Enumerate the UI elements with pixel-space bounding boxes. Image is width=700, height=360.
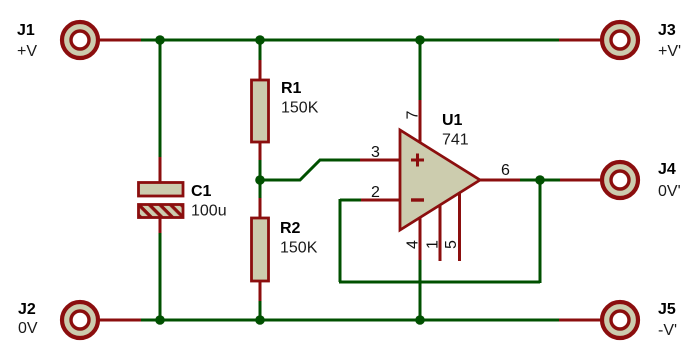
wire pin7 lead red xyxy=(419,100,422,144)
junction dot (160,40) xyxy=(155,35,165,45)
svg-text:+V: +V xyxy=(17,43,37,60)
op-amp U1 body xyxy=(400,130,480,230)
wire J2 pin stub xyxy=(99,319,141,322)
wire output green xyxy=(520,179,560,182)
wire C1 top lead red xyxy=(159,157,162,182)
junction dot (260,40) xyxy=(255,35,265,45)
wire node A to pin3 green xyxy=(261,160,361,180)
svg-text:4: 4 xyxy=(405,240,422,249)
svg-text:150K: 150K xyxy=(280,240,318,257)
svg-text:1: 1 xyxy=(425,240,442,249)
svg-text:5: 5 xyxy=(443,240,460,249)
wire C1 branch lower green xyxy=(159,233,162,320)
svg-text:J3: J3 xyxy=(658,22,676,39)
svg-text:0V: 0V xyxy=(18,320,38,337)
wire R1 bottom lead red xyxy=(259,142,262,161)
wire R2 branch bottom green xyxy=(259,301,262,320)
op-amp minus symbol xyxy=(411,198,424,201)
svg-text:0V': 0V' xyxy=(658,183,681,200)
svg-text:2: 2 xyxy=(371,184,380,201)
wire R2 bottom lead red xyxy=(259,281,262,302)
svg-text:J2: J2 xyxy=(18,301,36,318)
wire pin1 lead red xyxy=(439,204,442,261)
connector J2 xyxy=(62,302,98,338)
wire pin7 branch green xyxy=(419,40,422,101)
svg-text:J1: J1 xyxy=(17,22,35,39)
junction dot node A (260,180) xyxy=(255,175,265,185)
wire J1 pin stub xyxy=(99,39,141,42)
wire pin6 lead red xyxy=(479,179,521,182)
resistor R1 xyxy=(252,80,269,142)
svg-text:J4: J4 xyxy=(658,161,676,178)
svg-text:J5: J5 xyxy=(658,301,676,318)
junction dot output (540,180) xyxy=(535,175,545,185)
svg-text:R1: R1 xyxy=(281,80,302,97)
connector J3 xyxy=(602,22,638,58)
svg-text:-V': -V' xyxy=(658,322,677,339)
svg-text:U1: U1 xyxy=(442,112,463,129)
wire R1 top lead red xyxy=(259,60,262,80)
svg-text:741: 741 xyxy=(442,132,469,149)
wire pin2 lead red xyxy=(360,199,400,202)
wire C1 branch upper green xyxy=(159,40,162,158)
junction dot (420,320) xyxy=(415,315,425,325)
junction dot (160,320) xyxy=(155,315,165,325)
svg-text:+V': +V' xyxy=(658,43,681,60)
capacitor C1 top plate xyxy=(139,183,184,197)
wire J4 pin stub xyxy=(559,179,600,182)
connector J4 xyxy=(602,162,638,198)
svg-text:3: 3 xyxy=(371,144,380,161)
connector J5 xyxy=(602,302,638,338)
connector J1 xyxy=(62,22,98,58)
wire pin4 lead red xyxy=(419,216,422,261)
wire node A green xyxy=(259,160,262,199)
capacitor C1 bottom plate (hatched) xyxy=(139,205,184,218)
wire feedback left vertical green xyxy=(339,199,342,282)
wire pin4 to rail green xyxy=(419,260,422,320)
wire bottom rail green xyxy=(140,319,560,322)
svg-text:100u: 100u xyxy=(191,203,227,220)
wire R2 top lead red xyxy=(259,198,262,218)
svg-text:150K: 150K xyxy=(281,100,319,117)
wire pin5 lead red xyxy=(458,193,461,261)
wire pin2 green xyxy=(340,199,361,202)
svg-text:6: 6 xyxy=(501,162,510,179)
wire pin3 lead red xyxy=(360,159,400,162)
wire J5 pin stub xyxy=(559,319,600,322)
svg-text:7: 7 xyxy=(405,111,422,120)
junction dot (420,40) xyxy=(415,35,425,45)
wire R1 branch top green xyxy=(259,40,262,61)
wire C1 bottom lead red xyxy=(159,218,162,234)
wire top rail green xyxy=(140,39,560,42)
junction dot (260,320) xyxy=(255,315,265,325)
op-amp plus symbol xyxy=(411,154,424,167)
wire feedback bottom green xyxy=(339,281,540,284)
wire feedback right vertical green xyxy=(539,180,542,283)
wire J3 pin stub xyxy=(559,39,600,42)
svg-text:R2: R2 xyxy=(280,220,301,237)
svg-text:C1: C1 xyxy=(191,183,212,200)
resistor R2 xyxy=(252,218,269,281)
